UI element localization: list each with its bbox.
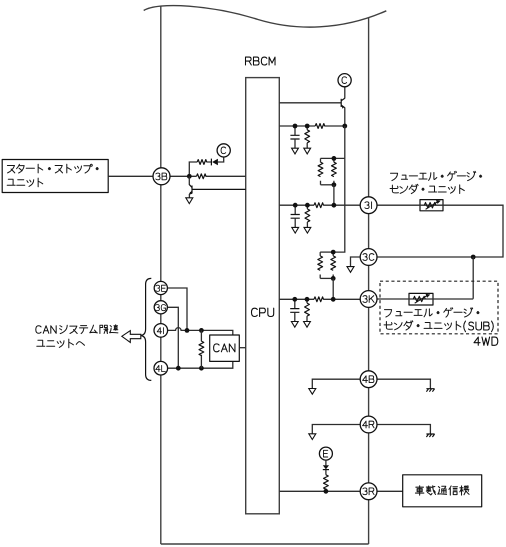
label RBCM xyxy=(246,57,252,65)
connector 3E xyxy=(154,281,167,294)
text fuel gauge line2 xyxy=(390,184,464,193)
on-board communication unit box xyxy=(403,475,482,507)
resistor R (right of pair 2) xyxy=(332,252,334,278)
resistor on 3B-CPU wire xyxy=(197,174,206,179)
wire: 4L to CAN box xyxy=(167,361,233,368)
wire: Q2 emitter down to rail junction xyxy=(344,107,346,126)
capacitor C to ground on rail 1 xyxy=(290,126,299,154)
text CAN system line1 kana xyxy=(60,325,118,334)
CAN box xyxy=(210,335,240,361)
wire: 3G right and down to 4L wire xyxy=(167,307,178,368)
label CPU xyxy=(252,308,258,316)
wire: 3I through sender to right edge, down and back to 3C xyxy=(377,205,503,257)
wire: 4B left branch to signal ground xyxy=(312,379,360,388)
text start-stop line1 xyxy=(7,164,98,173)
resistor R (left of pair 2) xyxy=(319,252,321,278)
wire: CPU to connector 3R (y=491.3) xyxy=(279,490,360,492)
connector 4B xyxy=(360,371,377,388)
capacitor to ground on 3I wire xyxy=(291,205,300,233)
resistor R to ground on rail 1 xyxy=(304,126,311,154)
wire: pair 2 down to 3K wire xyxy=(332,278,334,299)
terminal E circle xyxy=(319,447,332,460)
connector 3C xyxy=(360,249,377,266)
diode D (cathode left) in C branch xyxy=(210,159,212,166)
ground (chassis) at 4B right xyxy=(426,389,434,392)
text comm unit xyxy=(415,486,469,495)
text fuel gauge SUB line1 xyxy=(385,308,480,317)
ground (chassis) at 4R right xyxy=(426,434,434,437)
resistor on 3I wire xyxy=(314,203,323,208)
wire: 3C to ground xyxy=(351,257,361,267)
text fuel gauge line1 xyxy=(391,171,482,180)
connector 3R xyxy=(360,483,377,500)
connector 3K xyxy=(360,291,377,308)
capacitor to ground on 3K wire xyxy=(290,299,299,327)
fuel gauge sender unit (SUB) symbol xyxy=(409,293,433,305)
resistor pair 2 bottom rail xyxy=(320,277,333,279)
connector 3I xyxy=(360,197,377,214)
curly brace grouping CAN connectors xyxy=(140,278,152,380)
connector 3B xyxy=(153,168,170,185)
diode D (pointing down) in E branch xyxy=(323,465,329,469)
connector 3G xyxy=(154,301,167,314)
label (SUB) xyxy=(464,321,466,332)
terminal C circle (top right) xyxy=(338,74,351,87)
resistor to ground on 3K wire xyxy=(304,299,311,327)
wire: 3K through SUB sender to junction riser xyxy=(377,298,473,300)
wire: 4I to CAN box (with hop over 3G wire) xyxy=(167,328,233,335)
label CAN (latin part of CAN system text) xyxy=(36,326,41,334)
wire: 3R to communication unit box xyxy=(377,490,403,492)
connector 4R xyxy=(360,416,377,433)
wire: CPU to connector 3K (y=299.3) xyxy=(279,298,360,300)
wire: Q1 emitter to ground xyxy=(188,194,190,198)
text start-stop line2 xyxy=(7,178,43,187)
wire: Q2 collector up to terminal C xyxy=(344,87,346,99)
resistor R (right of pair 1) xyxy=(333,158,335,184)
text CAN system line2 xyxy=(37,339,85,348)
wire: from Q2 line down across 3I wire to pair 2 xyxy=(333,158,345,252)
wire: 3B to junction and into CPU xyxy=(170,175,245,177)
start-stop unit box xyxy=(2,160,108,193)
wire: right border of RBCM xyxy=(368,18,370,544)
wire: CAN box to CPU xyxy=(239,347,245,349)
transistor Q2 (base from CPU, collector to terminal C) xyxy=(279,102,341,104)
resistor between CAN-H and CAN-L xyxy=(200,330,202,368)
wire: CPU to junction (rail 1, y=126) xyxy=(279,125,345,127)
junction dots on CAN wires xyxy=(185,328,190,333)
connector 4I xyxy=(154,324,168,338)
wire: CPU to connector 3I (y=205.2) xyxy=(279,204,360,206)
wire: pair 1 down to 3I wire xyxy=(333,185,335,205)
wire: 4B right branch to chassis ground xyxy=(377,379,430,389)
connector 4L xyxy=(154,361,168,375)
wire: start-stop unit to connector 3B xyxy=(108,175,152,177)
label 4WD xyxy=(474,337,480,345)
wire: 4R left branch to signal ground xyxy=(312,425,360,434)
text fuel gauge SUB line2 xyxy=(384,321,461,330)
resistor on 3K wire xyxy=(314,297,323,302)
resistor on rail 1 xyxy=(315,124,324,129)
junction dot at 3B branch xyxy=(187,174,192,179)
arrow to CAN system units xyxy=(122,331,141,343)
wire: E down to diode xyxy=(325,460,327,465)
resistor in E branch xyxy=(325,470,327,475)
resistor pair 1 top rail xyxy=(321,157,345,159)
resistor in C branch xyxy=(197,160,206,165)
wire: 4R right branch to chassis ground xyxy=(377,425,430,435)
wire: bottom border of RBCM xyxy=(161,543,369,545)
RBCM module outline: wavy break line at top xyxy=(144,6,387,28)
resistor pair 1 bottom rail xyxy=(321,184,334,186)
ground (signal) below Q1 xyxy=(186,198,193,204)
terminal C circle (left) xyxy=(217,144,230,157)
transistor Q1 at 3B (base from CPU) xyxy=(188,176,190,185)
ground (signal) at 3C xyxy=(347,267,354,273)
wire: junction down to SUB sender xyxy=(472,257,474,299)
fuel gauge sender unit (variable resistor in box) xyxy=(420,200,443,211)
wire: left border of RBCM xyxy=(160,6,162,544)
wire: 3E right and down to 4I wire xyxy=(167,288,187,330)
wire: down from rail1 junction to resistor pair 1 xyxy=(344,126,346,158)
wire: branch up to diode/resistor toward terminal C xyxy=(189,157,223,176)
dashed box: fuel gauge sender unit (SUB) 4WD xyxy=(380,281,498,334)
resistor R (left of pair 1) xyxy=(320,158,322,184)
junction dots rail 1 xyxy=(293,124,298,129)
op-amp/IC CPU box xyxy=(246,78,280,514)
junction dot on 3C return wire xyxy=(471,255,476,260)
resistor pair 2 top rail xyxy=(320,251,333,253)
resistor to ground on 3I wire xyxy=(304,205,311,233)
